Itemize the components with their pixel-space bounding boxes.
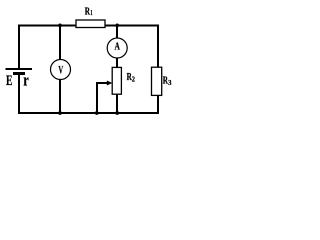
- node junction dot bottom voltmeter: [58, 111, 62, 115]
- wire left upper (corner to battery): [18, 25, 20, 69]
- node junction dot top ammeter: [115, 24, 119, 28]
- wire ammeter to R2: [116, 58, 118, 68]
- node junction dot top voltmeter: [58, 24, 62, 28]
- rheostat R2 box: [112, 67, 121, 94]
- wire ammeter branch upper: [116, 26, 118, 39]
- node junction dot bottom slider: [95, 111, 99, 115]
- rheostat slider arm vertical wire: [96, 83, 98, 113]
- wire R2 to bottom: [116, 94, 118, 114]
- svg-text:A: A: [115, 42, 121, 53]
- wire left lower (battery to bottom corner): [18, 75, 20, 115]
- wire right lower (R3 to bottom corner): [157, 95, 159, 114]
- resistor R1 box: [76, 20, 105, 28]
- node junction dot bottom R2: [115, 111, 119, 115]
- resistor R3 box: [152, 67, 162, 95]
- rheostat slider arm horizontal wire: [96, 82, 107, 84]
- svg-text:3: 3: [168, 78, 172, 87]
- rheostat slider arrowhead: [107, 81, 113, 86]
- wire top: [18, 25, 159, 27]
- battery short thick plate: [13, 72, 25, 75]
- svg-text:1: 1: [90, 8, 93, 17]
- wire voltmeter branch upper: [59, 26, 61, 61]
- svg-text:r: r: [23, 71, 29, 90]
- svg-text:V: V: [58, 63, 63, 77]
- ammeter A circle: [107, 38, 127, 58]
- wire bottom: [18, 112, 159, 114]
- battery long plate: [6, 68, 33, 70]
- voltmeter V circle: [51, 60, 71, 80]
- svg-text:2: 2: [132, 74, 135, 83]
- wire voltmeter branch lower: [59, 80, 61, 115]
- wire right upper (corner to R3): [157, 25, 159, 68]
- svg-text:E: E: [6, 73, 13, 89]
